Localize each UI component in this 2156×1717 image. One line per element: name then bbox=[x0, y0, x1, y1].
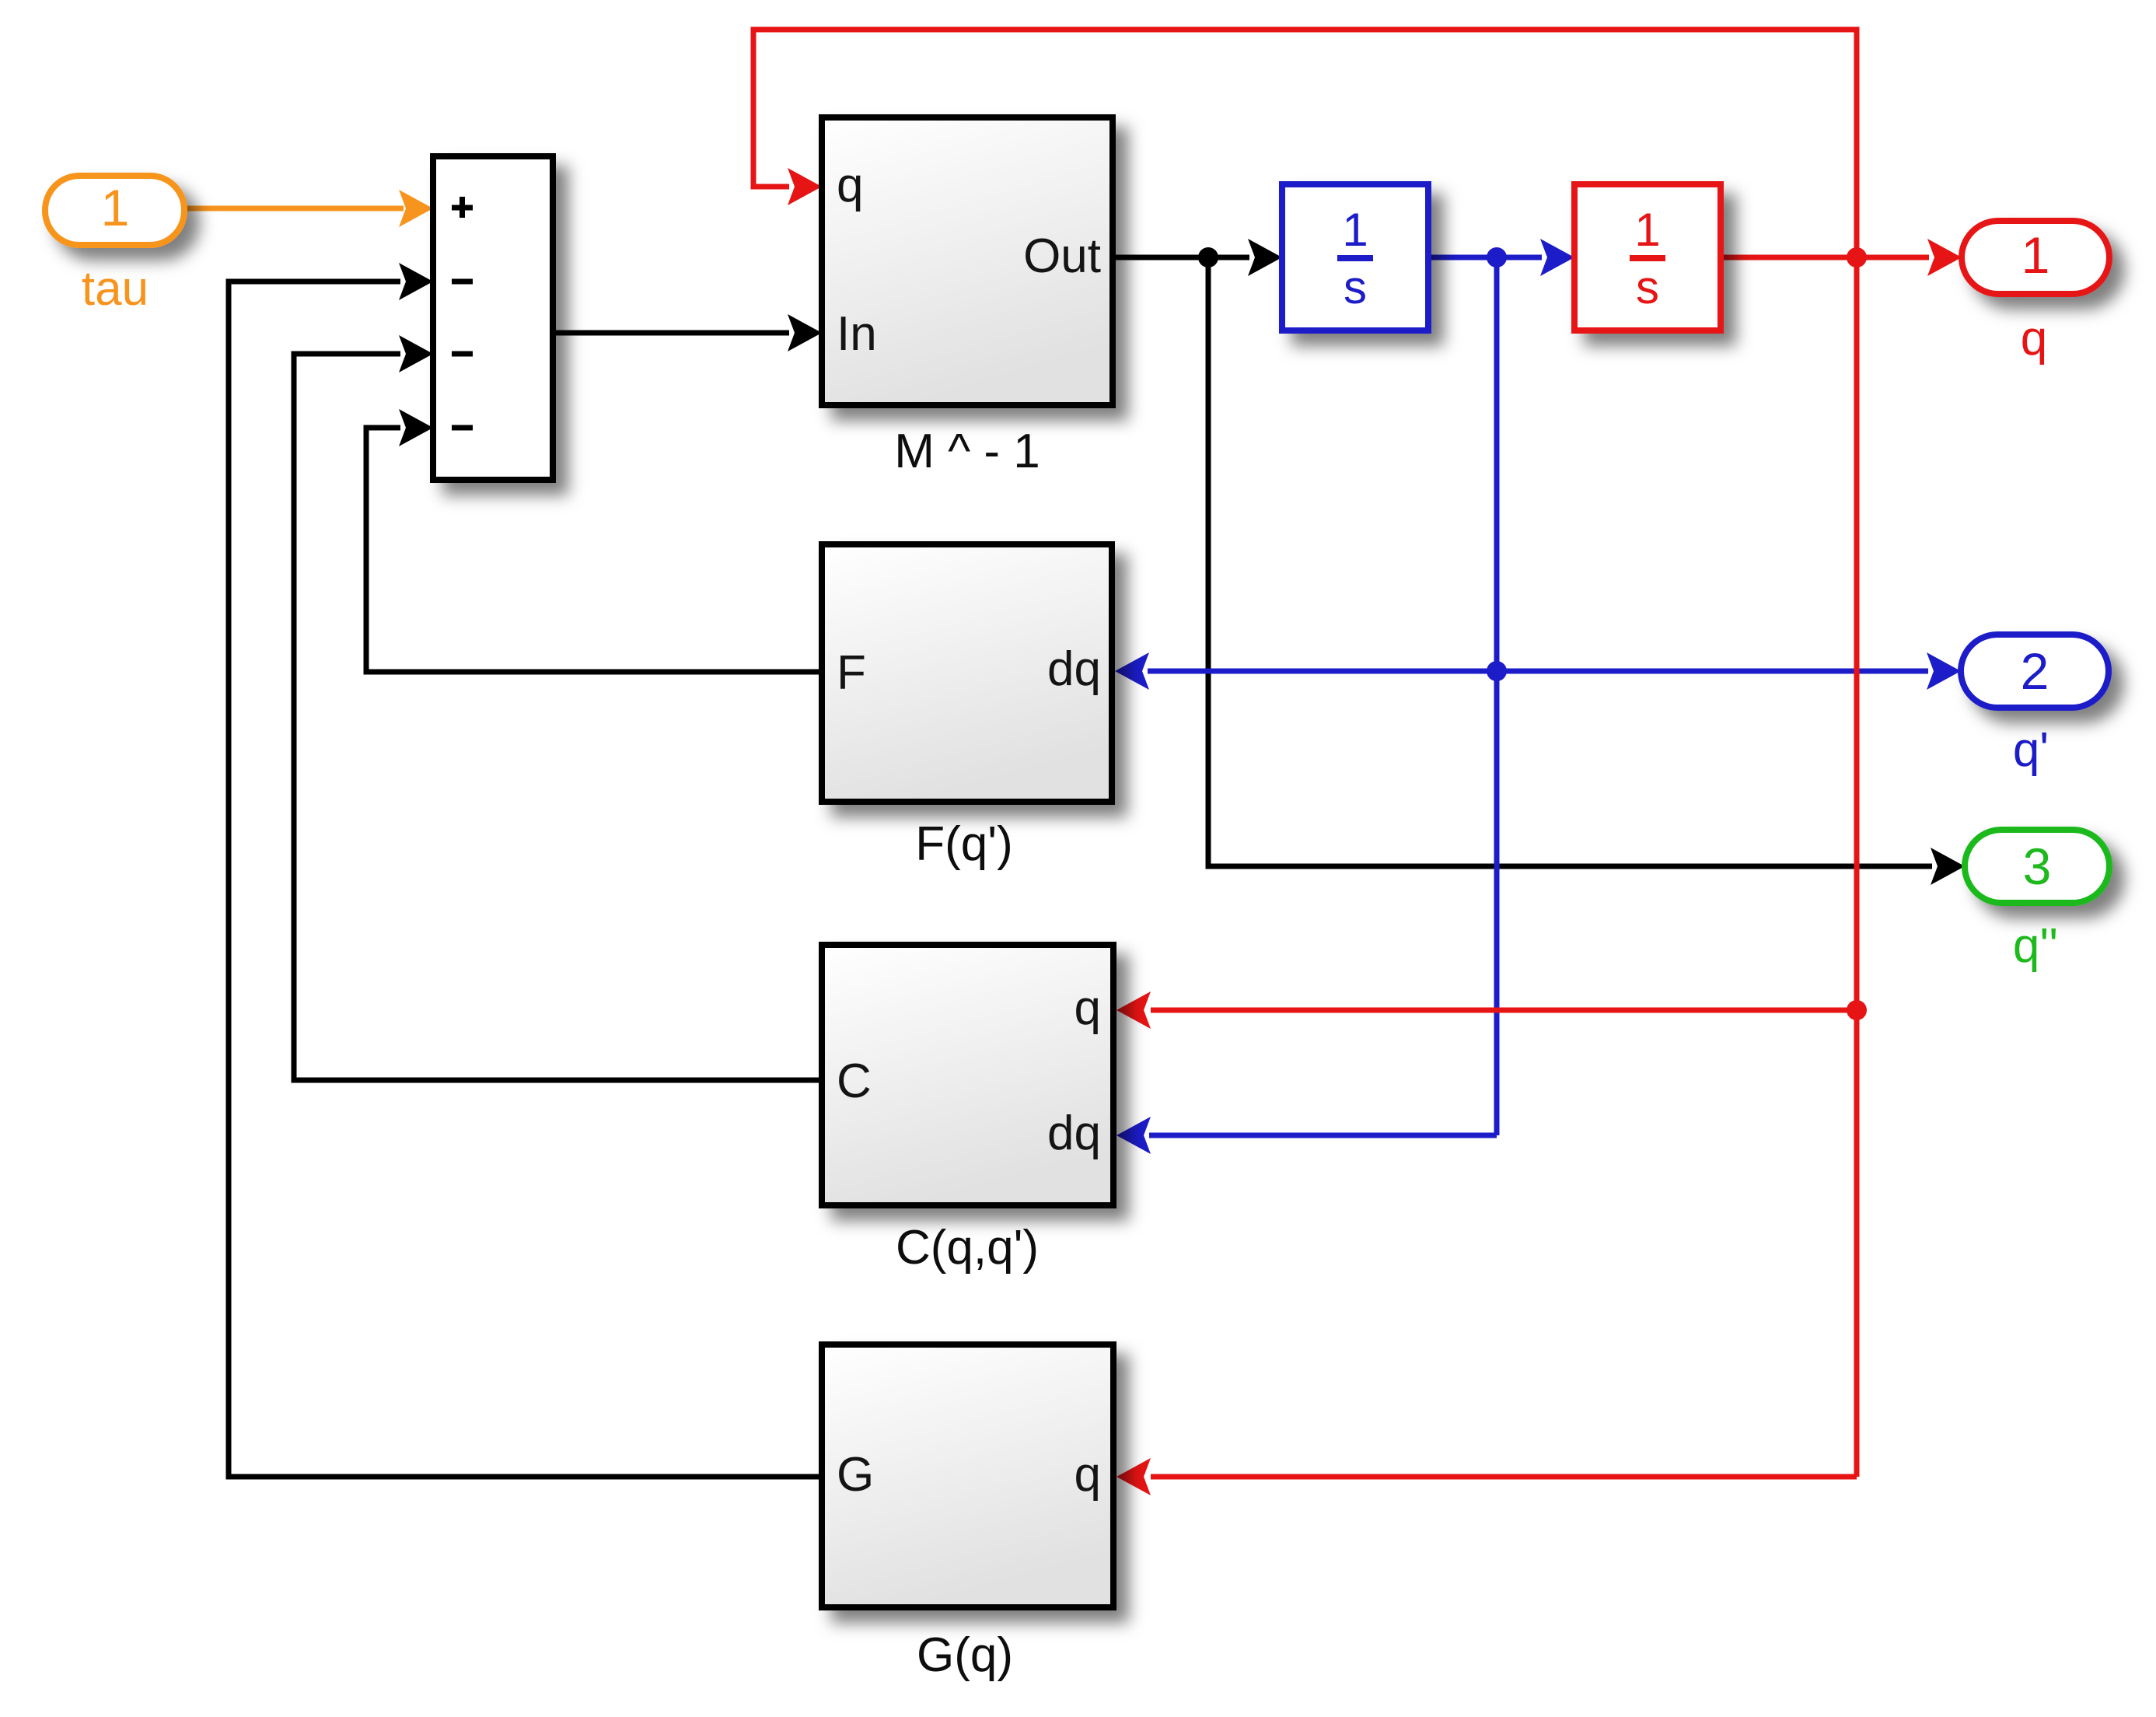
outport 3 oval bbox=[1965, 830, 2109, 903]
wire G output to sum minus input 2 bbox=[229, 263, 822, 1477]
wire blue row to F dq and outport 2 bbox=[1115, 652, 1961, 690]
outport 2 oval bbox=[1961, 635, 2109, 708]
svg-text:q': q' bbox=[2013, 723, 2049, 777]
svg-text:F: F bbox=[837, 646, 866, 700]
svg-text:C(q,q'): C(q,q') bbox=[896, 1221, 1039, 1275]
wire F output to sum minus input 4 bbox=[366, 409, 822, 672]
wire red to C q bbox=[1116, 991, 1857, 1029]
wire blue integrator to red integrator bbox=[1428, 239, 1574, 276]
sum sign minus 1 bbox=[452, 279, 473, 285]
sum sign minus 2 bbox=[452, 351, 473, 357]
subsystem M^-1 bbox=[822, 117, 1113, 405]
wire C output to sum minus input 3 bbox=[294, 335, 822, 1080]
subsystem F(q') bbox=[822, 544, 1112, 802]
wire sum output to M In bbox=[553, 314, 822, 351]
svg-text:q: q bbox=[837, 159, 863, 212]
svg-text:1: 1 bbox=[2021, 226, 2050, 284]
integrator 1 value 1/s bbox=[1337, 204, 1373, 313]
svg-text:dq: dq bbox=[1047, 1107, 1101, 1160]
svg-text:1: 1 bbox=[101, 179, 130, 236]
node red junction on C q row bbox=[1847, 1000, 1867, 1020]
wire red to G q bbox=[1116, 1458, 1857, 1495]
node blue junction on port2 row bbox=[1487, 661, 1507, 681]
svg-text:dq: dq bbox=[1047, 642, 1101, 696]
wire blue to C dq bbox=[1116, 1117, 1497, 1154]
node black junction on M Out bbox=[1198, 247, 1218, 268]
svg-text:G: G bbox=[837, 1448, 874, 1502]
subsystem G(q) bbox=[822, 1345, 1113, 1607]
svg-text:1: 1 bbox=[1342, 204, 1368, 256]
svg-text:tau: tau bbox=[82, 262, 149, 316]
sum sign minus 3 bbox=[452, 425, 473, 431]
svg-text:G(q): G(q) bbox=[917, 1628, 1013, 1682]
svg-text:q: q bbox=[1075, 981, 1101, 1035]
svg-text:M ^ - 1: M ^ - 1 bbox=[894, 425, 1040, 478]
svg-text:q'': q'' bbox=[2013, 919, 2058, 973]
wire red integrator to outport 1 bbox=[1721, 239, 1962, 276]
svg-text:3: 3 bbox=[2023, 838, 2052, 895]
outport 1 oval bbox=[1962, 221, 2109, 294]
integrator 2 red 1/s bbox=[1574, 184, 1721, 330]
svg-text:2: 2 bbox=[2021, 642, 2049, 700]
integrator 1 blue 1/s bbox=[1282, 184, 1428, 330]
wire tau to sum + bbox=[184, 190, 433, 227]
sum sign plus bbox=[452, 197, 473, 218]
node blue junction after blue integrator bbox=[1487, 247, 1507, 268]
svg-text:q: q bbox=[1075, 1448, 1101, 1502]
svg-text:In: In bbox=[837, 307, 877, 361]
inport 1 tau oval bbox=[45, 176, 184, 245]
subsystem C(q,q') bbox=[822, 945, 1113, 1205]
node red junction on outport 1 row bbox=[1847, 247, 1867, 268]
svg-text:s: s bbox=[1344, 261, 1367, 313]
svg-text:s: s bbox=[1636, 261, 1659, 313]
svg-text:Out: Out bbox=[1023, 229, 1101, 283]
wire red branch down bbox=[1854, 257, 1860, 1477]
integrator 2 value 1/s bbox=[1630, 204, 1665, 313]
svg-text:C: C bbox=[837, 1054, 872, 1108]
svg-text:q: q bbox=[2021, 312, 2047, 365]
svg-text:1: 1 bbox=[1634, 204, 1660, 256]
wire M Out to blue integrator bbox=[1113, 239, 1282, 276]
wire red feedback top to M q bbox=[753, 30, 1857, 257]
wire blue branch down bbox=[1494, 257, 1500, 1135]
wire M Out branch down to outport 3 bbox=[1208, 257, 1965, 885]
svg-text:F(q'): F(q') bbox=[915, 817, 1012, 871]
sum block bbox=[433, 156, 553, 480]
